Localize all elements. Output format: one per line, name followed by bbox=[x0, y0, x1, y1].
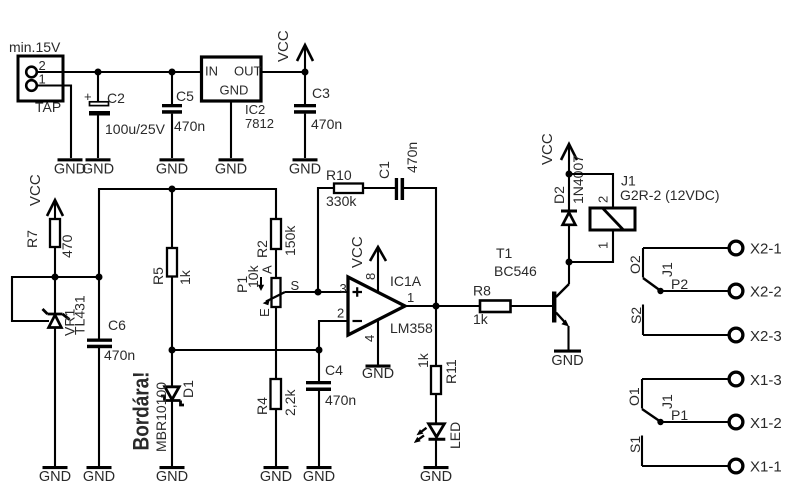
wire node to C6 bbox=[55, 276, 99, 278]
op-amp IC1A LM358 bbox=[337, 273, 433, 336]
svg-text:MBR10100: MBR10100 bbox=[153, 382, 169, 452]
wire R7 to node bbox=[54, 247, 56, 277]
power VCC op-amp pin 8 bbox=[349, 236, 386, 291]
junction bbox=[302, 69, 309, 76]
svg-text:1k: 1k bbox=[415, 352, 431, 368]
svg-text:GND: GND bbox=[362, 366, 394, 382]
svg-text:VCC: VCC bbox=[539, 133, 556, 165]
svg-text:O1: O1 bbox=[626, 387, 642, 406]
svg-text:C5: C5 bbox=[176, 88, 194, 104]
svg-text:R10: R10 bbox=[326, 167, 352, 183]
ground bbox=[303, 466, 335, 485]
ground bbox=[420, 466, 452, 485]
svg-text:150k: 150k bbox=[282, 225, 298, 256]
svg-text:VCC: VCC bbox=[275, 30, 292, 62]
svg-text:4: 4 bbox=[362, 335, 377, 342]
svg-text:min.15V: min.15V bbox=[9, 39, 61, 55]
svg-text:470n: 470n bbox=[174, 118, 205, 134]
wire relay pin 1 bbox=[569, 230, 613, 262]
relay J1 coil G2R-2 bbox=[590, 173, 720, 250]
wire O1 to X1-3 bbox=[642, 378, 729, 380]
terminal X2-3 bbox=[729, 328, 782, 345]
svg-text:C3: C3 bbox=[312, 85, 330, 101]
ground T1 emitter bbox=[551, 350, 583, 370]
svg-text:C6: C6 bbox=[108, 317, 126, 333]
svg-text:1: 1 bbox=[596, 242, 611, 249]
capacitor C3 bbox=[294, 72, 342, 158]
diode D1 MBR10100 bbox=[153, 350, 196, 466]
svg-text:1: 1 bbox=[407, 290, 414, 305]
svg-text:R11: R11 bbox=[443, 359, 459, 384]
ground bbox=[156, 466, 188, 485]
wire VR1 ref loop bbox=[12, 277, 55, 321]
terminal X2-2 bbox=[729, 284, 782, 301]
power VCC bbox=[275, 30, 313, 72]
ground bbox=[39, 466, 71, 485]
capacitor C2 bbox=[84, 72, 166, 158]
wire P2 to X2-2 bbox=[661, 290, 730, 292]
svg-text:VCC: VCC bbox=[349, 236, 366, 268]
svg-text:R5: R5 bbox=[150, 267, 166, 285]
svg-text:R2: R2 bbox=[254, 240, 270, 258]
svg-text:470n: 470n bbox=[104, 347, 135, 363]
svg-text:2,2k: 2,2k bbox=[282, 389, 298, 416]
capacitor C1 bbox=[376, 142, 420, 200]
wire O2 to X2-1 bbox=[643, 247, 729, 249]
svg-text:R4: R4 bbox=[254, 397, 270, 415]
wire IC2 OUT to VCC node bbox=[261, 71, 305, 73]
ground bbox=[54, 158, 86, 177]
svg-text:X2-3: X2-3 bbox=[750, 328, 782, 345]
wire P1 wiper to op-amp bbox=[285, 291, 318, 293]
svg-text:470: 470 bbox=[59, 234, 75, 258]
svg-text:1N4007: 1N4007 bbox=[570, 155, 586, 204]
svg-text:X2-2: X2-2 bbox=[750, 284, 782, 301]
ground bbox=[215, 158, 247, 177]
svg-text:OUT: OUT bbox=[234, 64, 262, 79]
wire op-amp pin 2 bbox=[319, 321, 348, 350]
junction bbox=[315, 289, 322, 296]
resistor R7 bbox=[24, 219, 75, 258]
diode D2 1N4007 bbox=[551, 155, 586, 262]
svg-text:A: A bbox=[260, 265, 275, 274]
ground bbox=[260, 466, 292, 485]
wire S2 to X2-3 bbox=[643, 334, 729, 336]
terminal X1-3 bbox=[729, 372, 782, 389]
svg-text:GND: GND bbox=[551, 353, 583, 369]
junction bbox=[566, 171, 573, 178]
svg-text:IC2: IC2 bbox=[245, 102, 265, 117]
potentiometer P1 bbox=[234, 264, 300, 317]
resistor R8 bbox=[473, 283, 511, 328]
svg-text:P1: P1 bbox=[671, 407, 688, 423]
svg-text:470n: 470n bbox=[311, 116, 342, 132]
svg-text:470n: 470n bbox=[325, 392, 356, 408]
wire TAP pin1 to GND bbox=[37, 86, 71, 159]
svg-text:S: S bbox=[291, 278, 300, 293]
svg-text:O2: O2 bbox=[627, 255, 643, 274]
junction bbox=[169, 186, 176, 193]
svg-text:R7: R7 bbox=[24, 230, 40, 248]
svg-text:P2: P2 bbox=[671, 276, 688, 292]
relay contact O1 bbox=[626, 379, 688, 425]
svg-text:D2: D2 bbox=[551, 186, 567, 204]
wire C1 to output bbox=[404, 188, 436, 306]
svg-text:100u/25V: 100u/25V bbox=[105, 121, 166, 137]
capacitor C6 bbox=[87, 277, 135, 466]
resistor R11 bbox=[415, 306, 459, 424]
svg-text:TL431: TL431 bbox=[72, 295, 88, 335]
svg-text:S2: S2 bbox=[628, 307, 644, 324]
svg-text:3: 3 bbox=[340, 281, 347, 296]
wire op-amp pin 3 bbox=[318, 291, 348, 293]
svg-text:X1-1: X1-1 bbox=[750, 459, 782, 476]
svg-text:D1: D1 bbox=[180, 380, 196, 398]
ground bbox=[156, 158, 188, 177]
voltage regulator IC2 7812 bbox=[202, 57, 274, 158]
junction bbox=[95, 69, 102, 76]
svg-text:+: + bbox=[84, 89, 92, 104]
svg-text:10k: 10k bbox=[245, 264, 261, 288]
resistor R4 bbox=[254, 307, 298, 466]
wire middle rail bbox=[99, 189, 276, 277]
wire op-amp output bbox=[405, 305, 480, 307]
ground bbox=[83, 466, 115, 485]
svg-text:X2-1: X2-1 bbox=[750, 241, 782, 258]
svg-text:Bordára!: Bordára! bbox=[129, 372, 154, 451]
power VCC bbox=[27, 174, 63, 219]
junction bbox=[169, 69, 176, 76]
svg-text:C4: C4 bbox=[325, 362, 343, 378]
svg-text:X1-3: X1-3 bbox=[750, 372, 782, 389]
terminal X1-1 bbox=[729, 459, 782, 476]
svg-text:2: 2 bbox=[596, 196, 611, 203]
junction bbox=[316, 347, 323, 354]
wire P1 to X1-2 bbox=[661, 421, 730, 423]
wire TAP pin2 to IC2 IN bbox=[37, 71, 201, 73]
svg-text:C2: C2 bbox=[107, 90, 125, 106]
junction bbox=[566, 259, 573, 266]
capacitor C5 bbox=[162, 72, 205, 158]
wire S1 to X1-1 bbox=[642, 465, 729, 467]
svg-text:X1-2: X1-2 bbox=[750, 415, 782, 432]
svg-text:1k: 1k bbox=[177, 269, 193, 285]
svg-text:7812: 7812 bbox=[245, 116, 274, 131]
relay contact S2 bbox=[628, 305, 644, 336]
junction bbox=[169, 347, 176, 354]
terminal X1-2 bbox=[729, 415, 782, 432]
junction bbox=[96, 274, 103, 281]
svg-text:8: 8 bbox=[363, 273, 378, 280]
ground op-amp pin 4 bbox=[362, 320, 394, 382]
connector TAP bbox=[9, 39, 63, 115]
wire relay pin 2 bbox=[569, 174, 613, 208]
svg-text:BC546: BC546 bbox=[494, 263, 537, 279]
transistor T1 BC546 bbox=[494, 245, 569, 350]
svg-text:IC1A: IC1A bbox=[390, 273, 422, 289]
svg-text:1: 1 bbox=[39, 72, 46, 87]
svg-text:G2R-2 (12VDC): G2R-2 (12VDC) bbox=[620, 187, 720, 203]
svg-text:J1: J1 bbox=[659, 262, 675, 277]
svg-text:LM358: LM358 bbox=[390, 320, 433, 336]
terminal X2-1 bbox=[729, 241, 782, 258]
ground bbox=[289, 158, 321, 177]
svg-text:470n: 470n bbox=[404, 142, 420, 173]
wire D1 node to C4 node bbox=[172, 349, 319, 351]
power VCC relay bbox=[539, 133, 577, 174]
wire R10 to C1 bbox=[363, 187, 395, 189]
ground bbox=[82, 158, 114, 177]
svg-text:IN: IN bbox=[205, 64, 218, 79]
svg-text:S1: S1 bbox=[627, 436, 643, 453]
svg-text:2: 2 bbox=[337, 306, 344, 321]
svg-text:T1: T1 bbox=[496, 245, 513, 261]
svg-text:1k: 1k bbox=[473, 311, 489, 327]
capacitor C4 bbox=[306, 350, 356, 466]
resistor R2 bbox=[254, 219, 298, 258]
wire feedback node up to R10 bbox=[318, 188, 334, 292]
svg-text:C1: C1 bbox=[376, 161, 392, 179]
svg-text:VCC: VCC bbox=[27, 174, 44, 206]
wire R8 to T1 base bbox=[511, 305, 553, 307]
relay contact S1 bbox=[627, 436, 643, 467]
shunt regulator VR1 TL431 bbox=[43, 277, 88, 466]
svg-text:330k: 330k bbox=[326, 193, 357, 209]
svg-text:R8: R8 bbox=[473, 283, 491, 299]
relay contact O2 bbox=[627, 248, 688, 294]
svg-text:LED: LED bbox=[447, 422, 463, 449]
LED bbox=[414, 422, 463, 466]
junction bbox=[52, 274, 59, 281]
wire R2 to P1 bbox=[275, 249, 277, 278]
svg-text:E: E bbox=[257, 308, 272, 317]
svg-text:GND: GND bbox=[220, 83, 249, 98]
resistor R5 bbox=[150, 189, 193, 350]
resistor R10 bbox=[326, 167, 363, 209]
junction bbox=[433, 303, 440, 310]
svg-text:TAP: TAP bbox=[35, 99, 61, 115]
